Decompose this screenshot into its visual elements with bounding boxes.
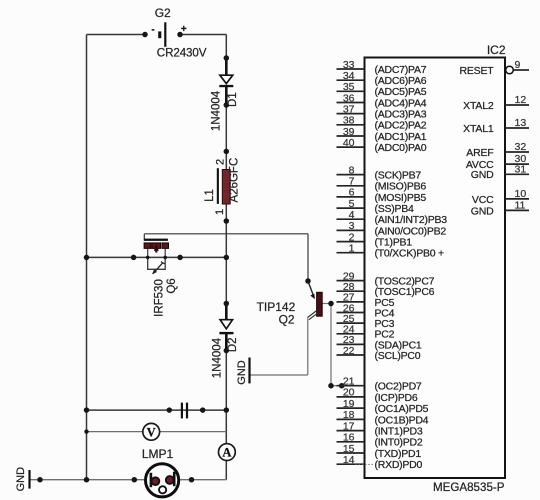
svg-text:V: V [147, 425, 156, 439]
svg-text:20: 20 [343, 387, 355, 399]
svg-text:12: 12 [515, 94, 527, 106]
svg-text:(OC2)PD7: (OC2)PD7 [375, 381, 422, 393]
svg-text:21: 21 [343, 376, 355, 388]
svg-text:GND: GND [471, 169, 494, 181]
svg-text:IC2: IC2 [487, 43, 506, 57]
svg-text:MEGA8535-P: MEGA8535-P [433, 481, 505, 494]
svg-text:35: 35 [343, 81, 355, 93]
svg-text:GND: GND [236, 360, 248, 385]
svg-text:11: 11 [515, 199, 526, 211]
svg-text:(ADC3)PA3: (ADC3)PA3 [375, 109, 427, 121]
svg-text:9: 9 [515, 59, 521, 71]
svg-text:A26GFC: A26GFC [229, 158, 241, 203]
svg-text:A: A [222, 446, 231, 460]
svg-text:Q6: Q6 [166, 278, 178, 293]
svg-text:(OC1B)PD4: (OC1B)PD4 [375, 414, 429, 426]
svg-text:(INT0)PD2: (INT0)PD2 [375, 437, 423, 449]
svg-text:(OC1A)PD5: (OC1A)PD5 [375, 403, 429, 415]
svg-text:GND: GND [15, 467, 27, 492]
svg-text:(AIN1/INT2)PB3: (AIN1/INT2)PB3 [375, 214, 448, 226]
svg-text:GND: GND [471, 205, 494, 217]
svg-text:G2: G2 [155, 6, 171, 20]
svg-text:IRF530: IRF530 [153, 279, 165, 317]
svg-text:L1: L1 [204, 189, 216, 202]
svg-text:LMP1: LMP1 [142, 447, 174, 461]
svg-text:32: 32 [515, 141, 527, 153]
svg-text:8: 8 [349, 164, 355, 176]
svg-text:(ADC7)PA7: (ADC7)PA7 [375, 64, 427, 76]
svg-text:37: 37 [343, 103, 355, 115]
svg-text:1N4004: 1N4004 [212, 337, 224, 378]
svg-text:1N4004: 1N4004 [211, 90, 223, 131]
svg-text:XTAL2: XTAL2 [463, 100, 494, 112]
svg-text:-: - [151, 25, 154, 36]
svg-text:(AIN0/OC0)PB2: (AIN0/OC0)PB2 [375, 225, 447, 237]
svg-text:(ADC5)PA5: (ADC5)PA5 [375, 86, 427, 98]
svg-text:1: 1 [349, 243, 355, 255]
svg-text:18: 18 [343, 409, 355, 421]
svg-text:(ICP)PD6: (ICP)PD6 [375, 392, 418, 404]
svg-text:31: 31 [515, 163, 527, 175]
svg-text:(SCK)PB7: (SCK)PB7 [375, 170, 422, 182]
svg-text:10: 10 [515, 188, 527, 200]
svg-text:19: 19 [343, 398, 355, 410]
svg-text:15: 15 [343, 443, 355, 455]
svg-text:33: 33 [343, 59, 355, 71]
svg-text:13: 13 [515, 117, 527, 129]
svg-text:Q2: Q2 [279, 312, 295, 326]
svg-text:RESET: RESET [459, 65, 494, 77]
svg-text:17: 17 [343, 420, 355, 432]
svg-text:4: 4 [349, 209, 355, 221]
svg-text:3: 3 [349, 220, 355, 232]
svg-text:AREF: AREF [466, 147, 493, 159]
svg-text:6: 6 [349, 187, 355, 199]
svg-text:1: 1 [214, 209, 226, 215]
svg-text:40: 40 [343, 137, 355, 149]
svg-text:(ADC2)PA2: (ADC2)PA2 [375, 120, 427, 132]
svg-text:CR2430V: CR2430V [157, 47, 207, 60]
svg-text:22: 22 [343, 345, 355, 357]
svg-text:2: 2 [214, 159, 226, 165]
svg-text:(SCL)PC0: (SCL)PC0 [375, 350, 421, 362]
svg-text:XTAL1: XTAL1 [463, 123, 494, 135]
svg-text:(ADC0)PA0: (ADC0)PA0 [375, 142, 427, 154]
svg-text:(INT1)PD3: (INT1)PD3 [375, 426, 423, 438]
svg-text:38: 38 [343, 115, 355, 127]
svg-text:(MOSI)PB5: (MOSI)PB5 [375, 192, 427, 204]
svg-text:(T0/XCK)PB0 +: (T0/XCK)PB0 + [375, 248, 445, 260]
svg-text:16: 16 [343, 432, 355, 444]
svg-text:(RXD)PD0: (RXD)PD0 [375, 459, 423, 471]
svg-text:14: 14 [343, 454, 355, 466]
svg-text:VCC: VCC [472, 194, 494, 206]
svg-text:(TXD)PD1: (TXD)PD1 [375, 448, 422, 460]
